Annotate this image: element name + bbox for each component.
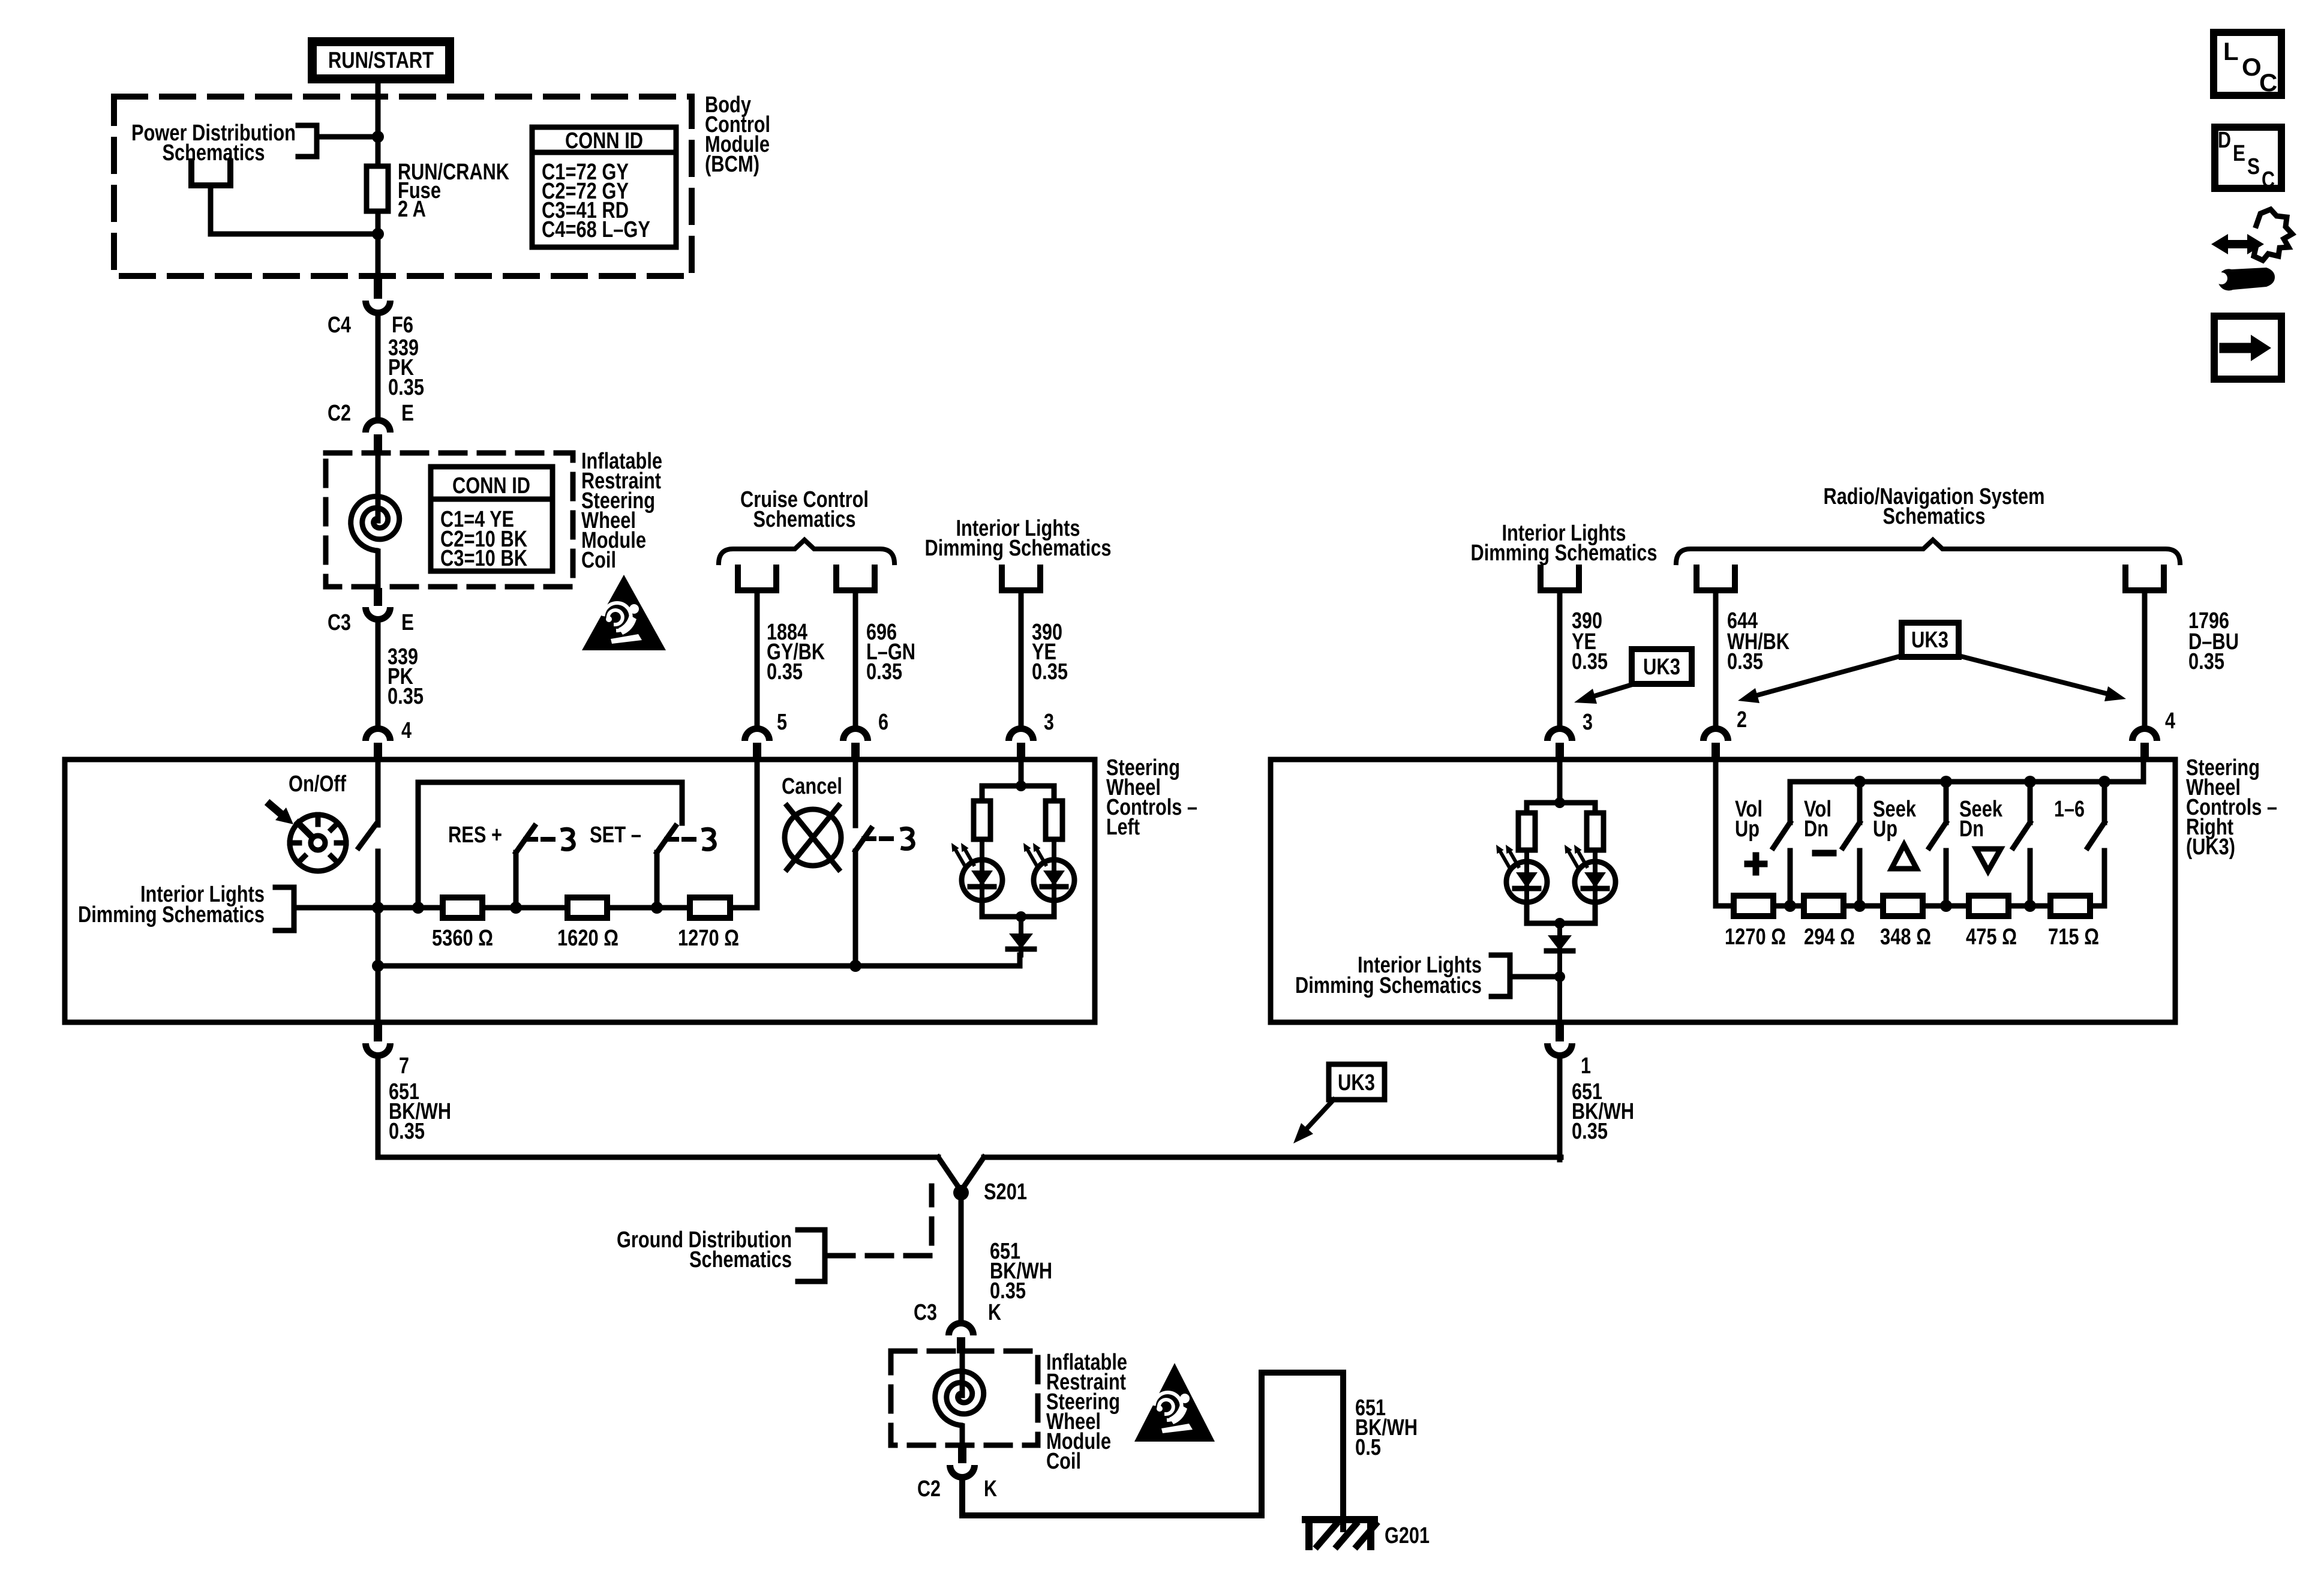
junction node bbox=[412, 902, 424, 914]
svg-text:5360 Ω: 5360 Ω bbox=[432, 926, 493, 951]
wire RES/SET top rail bbox=[418, 782, 682, 908]
icon LOC box bbox=[2214, 32, 2281, 97]
off-page staple pin 5 bbox=[738, 568, 776, 590]
svg-text:Dimming Schematics: Dimming Schematics bbox=[1295, 973, 1482, 998]
svg-text:Schematics: Schematics bbox=[753, 507, 856, 532]
wire S201 to C3 K bbox=[959, 1200, 964, 1320]
switch Seek Up stub and blade bbox=[1929, 782, 1946, 906]
svg-text:G201: G201 bbox=[1385, 1523, 1430, 1548]
svg-text:1270 Ω: 1270 Ω bbox=[1725, 924, 1786, 950]
icon DESC box bbox=[2215, 127, 2281, 193]
svg-text:6: 6 bbox=[878, 710, 888, 735]
junction node bbox=[510, 902, 522, 914]
connector C2 pin E of coil bbox=[362, 417, 394, 454]
icon forward arrow box bbox=[2214, 316, 2281, 379]
off-page staple pin 3 (right) bbox=[1541, 568, 1579, 590]
module box Steering Wheel Controls - Right bbox=[1271, 760, 2175, 1022]
label Interior Lights Dimming Schematics (right top) bbox=[1471, 521, 1658, 566]
off-page staple pin 3 bbox=[1002, 568, 1040, 590]
connector right pin 3 bbox=[1544, 725, 1575, 761]
brace over cruise control staples bbox=[719, 540, 894, 563]
svg-text:0.35: 0.35 bbox=[389, 1119, 425, 1144]
LED cluster feed wire (left box pin 3) bbox=[1019, 760, 1024, 786]
svg-text:475 Ω: 475 Ω bbox=[1966, 924, 2017, 950]
connector pin 6 bbox=[840, 725, 871, 761]
off-page staple pin 6 bbox=[836, 568, 875, 590]
resistor 1620 ohm bbox=[568, 897, 607, 918]
wire C4 to C2, circuit 339 PK bbox=[376, 314, 381, 417]
junction node bbox=[372, 228, 384, 240]
label 390 YE 0.35 bbox=[1032, 620, 1068, 685]
svg-text:S: S bbox=[2247, 154, 2260, 179]
coil spiral symbol bbox=[351, 497, 400, 551]
svg-text:Up: Up bbox=[1873, 816, 1897, 842]
wire bracket to main bbox=[317, 134, 378, 140]
wire LED bottom bar (right) bbox=[1527, 902, 1595, 923]
svg-text:On/Off: On/Off bbox=[289, 772, 346, 797]
svg-text:E: E bbox=[401, 401, 414, 426]
switch On/Off: upper wire bbox=[376, 760, 381, 825]
svg-text:C2: C2 bbox=[328, 401, 351, 426]
svg-text:Left: Left bbox=[1106, 815, 1140, 840]
svg-text:UK3: UK3 bbox=[1338, 1070, 1375, 1095]
wire switch top rail bbox=[1790, 760, 2143, 822]
arrow into gauge bbox=[270, 804, 293, 824]
CONN ID table (coil) bbox=[431, 467, 553, 571]
svg-text:0.35: 0.35 bbox=[1572, 1119, 1608, 1144]
wire into coil center bbox=[376, 454, 381, 521]
connector right pin 4 bbox=[2129, 725, 2160, 761]
svg-text:D: D bbox=[2218, 128, 2231, 153]
diode (left box) bbox=[1008, 917, 1034, 955]
LED emission arrows bbox=[1565, 845, 1587, 866]
switch Cancel detent link bbox=[881, 828, 913, 849]
coil spiral symbol (bottom) bbox=[935, 1371, 984, 1426]
svg-text:Coil: Coil bbox=[581, 548, 616, 573]
switch 1-6 stub and blade bbox=[2088, 782, 2104, 906]
svg-text:0.35: 0.35 bbox=[1032, 659, 1068, 685]
svg-text:0.5: 0.5 bbox=[1355, 1435, 1381, 1460]
wire LED bottom bar bbox=[982, 900, 1054, 917]
label 390 YE 0.35 (right) bbox=[1572, 608, 1608, 674]
svg-text:1–6: 1–6 bbox=[2054, 797, 2085, 822]
wire staple to right pin 3 bbox=[1557, 590, 1563, 725]
fuse RUN/CRANK 2A bbox=[367, 166, 388, 211]
LED indicator left (right box) bbox=[1506, 861, 1547, 902]
switch SET- blade bbox=[657, 826, 677, 852]
junction node bbox=[1016, 781, 1026, 791]
connector pin 7 (left box bottom) bbox=[362, 1023, 394, 1059]
label Interior Lights Dimming Schematics (left top) bbox=[925, 516, 1112, 561]
svg-text:4: 4 bbox=[401, 718, 412, 743]
wire coil exit down bbox=[376, 551, 381, 588]
svg-text:RUN/START: RUN/START bbox=[328, 48, 434, 73]
coil module dashed box (Inflatable Restraint Steering Wheel Module Coil) bbox=[326, 453, 573, 587]
resistor 5360 ohm bbox=[443, 897, 482, 918]
resistor LED right bbox=[1046, 801, 1062, 839]
svg-text:1: 1 bbox=[1581, 1053, 1591, 1079]
switch Vol Dn stub and blade bbox=[1843, 782, 1860, 906]
wire into bottom coil center bbox=[960, 1353, 965, 1395]
wire staple to pin 2 bbox=[1713, 590, 1719, 725]
svg-text:1270 Ω: 1270 Ω bbox=[678, 926, 739, 951]
off-page staple pin 2 bbox=[1697, 568, 1735, 590]
svg-text:C: C bbox=[2259, 68, 2277, 97]
svg-text:UK3: UK3 bbox=[1643, 655, 1680, 680]
wire LED branch top bar bbox=[982, 786, 1054, 801]
svg-text:1620 Ω: 1620 Ω bbox=[557, 926, 618, 951]
svg-text:Schematics: Schematics bbox=[1883, 504, 1986, 529]
label 339 PK 0.35 bbox=[388, 644, 424, 709]
splice S201 V-drop right bbox=[962, 1157, 984, 1189]
wire resistor to LED right bbox=[1052, 839, 1056, 860]
label Inflatable Restraint Steering Wheel Module Coil bbox=[581, 449, 662, 573]
CONN ID table (BCM) bbox=[532, 127, 676, 247]
connector C4 pin F6 bbox=[362, 277, 394, 316]
switch On/Off blade bbox=[359, 825, 376, 848]
label Interior Lights Dimming Schematics (inside right box) bbox=[1295, 953, 1482, 998]
arrow UK3 to pin 3 wire bbox=[1574, 684, 1634, 704]
wire coil exit down bbox=[960, 1426, 965, 1446]
label 339 PK 0.35 bbox=[388, 335, 424, 400]
coil module dashed box (bottom) bbox=[891, 1351, 1038, 1445]
switch SET- stub bbox=[654, 852, 660, 908]
svg-text:(BCM): (BCM) bbox=[705, 152, 759, 177]
connector C2 pin K of coil bbox=[947, 1446, 978, 1481]
label Steering Wheel Controls - Right (UK3) bbox=[2186, 755, 2277, 860]
LED indicator right (right box) bbox=[1575, 861, 1616, 902]
off-page staple pin 4 (right) bbox=[2125, 568, 2164, 590]
LED emission arrows left bbox=[951, 843, 974, 864]
svg-text:715 Ω: 715 Ω bbox=[2048, 924, 2099, 950]
reference bracket (Power Distribution) bbox=[298, 125, 317, 157]
arrow UK3 to wire bbox=[1293, 1100, 1334, 1143]
label 644 WH/BK 0.35 bbox=[1727, 608, 1789, 674]
junction node bbox=[651, 902, 663, 914]
icon connector repair (arrow, harness outline, wrench) bbox=[2211, 209, 2292, 290]
label UK3 (bottom callout box) bbox=[1329, 1064, 1385, 1100]
wire pin 7 down to S201 run bbox=[378, 1057, 938, 1157]
resistor LED left (right box) bbox=[1518, 813, 1535, 850]
wire C3 to left box pin 4 bbox=[376, 622, 381, 725]
svg-text:Cancel: Cancel bbox=[782, 774, 842, 799]
wire below On/Off switch bbox=[376, 851, 381, 1022]
LED emission arrows right bbox=[1023, 843, 1046, 864]
wire pin 1 down bbox=[1557, 1057, 1563, 1160]
svg-text:348 Ω: 348 Ω bbox=[1880, 924, 1931, 950]
switch RES+ stub bbox=[514, 852, 519, 908]
svg-text:CONN ID: CONN ID bbox=[452, 473, 530, 499]
svg-text:0.35: 0.35 bbox=[388, 684, 424, 709]
switch SET- detent link bbox=[684, 829, 714, 849]
junction node bbox=[372, 960, 384, 972]
svg-text:E: E bbox=[401, 610, 414, 635]
connector C3 pin K of coil bbox=[945, 1320, 977, 1353]
resistor LED left bbox=[974, 801, 990, 839]
svg-text:SET –: SET – bbox=[590, 822, 641, 848]
wire staple to pin 4 bbox=[2142, 590, 2148, 725]
wire staple down and right to main bbox=[211, 185, 378, 234]
svg-text:C3: C3 bbox=[914, 1300, 937, 1325]
svg-text:Coil: Coil bbox=[1046, 1449, 1081, 1474]
label Power Distribution Schematics bbox=[131, 121, 296, 166]
svg-text:0.35: 0.35 bbox=[767, 659, 803, 685]
switch Cancel: upper wire bbox=[853, 760, 858, 825]
wire resistor chain bottom line bbox=[378, 905, 730, 911]
svg-text:C3: C3 bbox=[328, 610, 351, 635]
svg-text:C: C bbox=[2262, 167, 2275, 193]
wire resistor to LED left bbox=[980, 839, 984, 860]
connector pin 3 (left box) bbox=[1005, 725, 1037, 761]
svg-text:3: 3 bbox=[1044, 710, 1054, 735]
label Inflatable Restraint Steering Wheel Module Coil (bottom) bbox=[1046, 1350, 1127, 1474]
svg-text:(UK3): (UK3) bbox=[2186, 834, 2235, 860]
reference bracket (interior lights right) bbox=[1491, 955, 1510, 996]
label 651 BK/WH 0.35 (left) bbox=[389, 1079, 451, 1144]
svg-text:C4=68 L–GY: C4=68 L–GY bbox=[542, 217, 650, 242]
switch Vol Up stub and blade bbox=[1773, 782, 1790, 906]
svg-text:C2: C2 bbox=[917, 1476, 941, 1502]
reference bracket (ground distribution) bbox=[798, 1230, 825, 1281]
connector pin 5 bbox=[741, 725, 773, 761]
wire bracket to main bbox=[294, 905, 378, 911]
LED indicator left bbox=[962, 860, 1002, 900]
label 1796 D-BU 0.35 bbox=[2188, 608, 2239, 674]
svg-text:2: 2 bbox=[1737, 707, 1747, 733]
module BCM dashed box bbox=[114, 97, 692, 276]
label UK3 (right pin 3 callout) bbox=[1632, 649, 1692, 684]
label 651 BK/WH 0.35 (S201 drop) bbox=[990, 1239, 1052, 1304]
arrow UK3 to pin 2 wire bbox=[1738, 656, 1902, 703]
junction node bbox=[1554, 918, 1565, 929]
resistor LED right (right box) bbox=[1587, 813, 1604, 850]
junction nodes top rail bbox=[1854, 776, 1866, 788]
brace over radio/navigation staples bbox=[1676, 540, 2180, 563]
junction node bbox=[1554, 971, 1565, 982]
svg-text:0.35: 0.35 bbox=[1572, 649, 1608, 674]
power feed RUN/START box bbox=[308, 37, 454, 83]
airbag warning triangle (bottom) bbox=[1134, 1363, 1215, 1442]
label Seek Dn triangle bbox=[1959, 797, 2003, 871]
junction node bbox=[849, 960, 861, 972]
junction node bbox=[1554, 797, 1565, 808]
svg-text:K: K bbox=[988, 1300, 1001, 1325]
reference bracket (interior lights left) bbox=[275, 887, 294, 930]
label Body Control Module (BCM) bbox=[705, 92, 770, 177]
junction node bbox=[1016, 911, 1026, 922]
wire bracket tee bbox=[1510, 974, 1560, 980]
resistors 1270 294 348 475 715 bbox=[1734, 896, 1773, 916]
wire C2 K to ground G201 bbox=[962, 1373, 1343, 1529]
wire lamp return line bbox=[378, 955, 1020, 966]
wire resistor rail (right box) bbox=[1716, 903, 2104, 909]
svg-text:Up: Up bbox=[1735, 816, 1759, 842]
svg-text:5: 5 bbox=[777, 710, 787, 735]
diode (right box) bbox=[1547, 923, 1573, 1022]
LED cluster feed wire (right box pin 3) bbox=[1557, 760, 1563, 803]
wire pin 2 down to resistor rail bbox=[1713, 760, 1719, 906]
svg-text:Dn: Dn bbox=[1804, 816, 1828, 842]
wire BCM internal vertical bbox=[376, 100, 381, 277]
svg-text:K: K bbox=[984, 1476, 997, 1502]
svg-text:L: L bbox=[2223, 37, 2239, 65]
svg-text:UK3: UK3 bbox=[1911, 628, 1948, 653]
switch Seek Dn stub and blade bbox=[2013, 782, 2030, 906]
svg-text:0.35: 0.35 bbox=[1727, 649, 1763, 674]
switch RES+ blade bbox=[516, 826, 536, 852]
svg-text:O: O bbox=[2242, 53, 2262, 81]
ground symbol G201 bbox=[1305, 1520, 1376, 1547]
label UK3 (radio callout) bbox=[1902, 623, 1959, 657]
svg-text:294 Ω: 294 Ω bbox=[1804, 924, 1855, 950]
splice S201 V-drop left bbox=[938, 1157, 960, 1189]
svg-text:Dn: Dn bbox=[1959, 816, 1984, 842]
cancel lamp circle-X bbox=[785, 806, 841, 869]
svg-text:Dimming Schematics: Dimming Schematics bbox=[78, 902, 265, 927]
off-page staple under Power Distribution bbox=[191, 161, 230, 185]
junction nodes bottom rail bbox=[1784, 900, 1796, 912]
switch Cancel blade bbox=[855, 828, 874, 851]
dashed reference wire to S201 bbox=[829, 1186, 932, 1256]
wire chain right end riser to pin 5 bbox=[730, 760, 757, 908]
svg-text:C4: C4 bbox=[328, 313, 351, 338]
label 651 BK/WH 0.35 (right) bbox=[1572, 1079, 1634, 1144]
svg-text:C3=10 BK: C3=10 BK bbox=[440, 546, 527, 571]
svg-text:3: 3 bbox=[1583, 710, 1593, 735]
svg-text:2 A: 2 A bbox=[398, 197, 426, 222]
label Cruise Control Schematics bbox=[740, 487, 869, 532]
connector pin 2 bbox=[1700, 725, 1731, 761]
wire resistor to LED right bbox=[1593, 850, 1598, 861]
svg-text:7: 7 bbox=[399, 1053, 409, 1079]
LED emission arrows bbox=[1496, 845, 1518, 866]
svg-text:0.35: 0.35 bbox=[388, 375, 424, 400]
connector C3 pin E of coil (below box) bbox=[362, 588, 394, 623]
svg-text:0.35: 0.35 bbox=[2188, 649, 2224, 674]
label RUN/CRANK Fuse 2 A bbox=[398, 160, 509, 222]
svg-text:RES +: RES + bbox=[448, 822, 502, 848]
splice node S201 bbox=[953, 1185, 969, 1200]
svg-text:E: E bbox=[2233, 141, 2245, 166]
label Vol Up + bbox=[1735, 797, 1764, 872]
connector pin 1 (right box bottom) bbox=[1544, 1023, 1575, 1059]
module box Steering Wheel Controls - Left bbox=[65, 760, 1095, 1022]
wire staple to pin 3 bbox=[1019, 590, 1024, 725]
label 651 BK/WH 0.5 bbox=[1355, 1395, 1418, 1460]
svg-text:0.35: 0.35 bbox=[866, 659, 902, 685]
label Steering Wheel Controls - Left bbox=[1106, 755, 1197, 840]
wire resistor to LED left bbox=[1524, 850, 1529, 861]
svg-text:Dimming Schematics: Dimming Schematics bbox=[1471, 541, 1658, 566]
wire LED branch top bar (right) bbox=[1527, 803, 1595, 816]
wire right box pin 1 run to S201 bbox=[984, 1155, 1561, 1160]
label Radio/Navigation System Schematics bbox=[1824, 484, 2045, 529]
LED indicator right bbox=[1034, 860, 1074, 900]
label Vol Dn - bbox=[1804, 797, 1833, 853]
wire staple to pin 5 bbox=[755, 590, 760, 725]
gauge icon (speed control) bbox=[290, 815, 346, 871]
label Interior Lights Dimming Schematics (inside left box) bbox=[78, 882, 265, 927]
switch RES+ detent link bbox=[543, 829, 574, 849]
arrow UK3 to pin 4 wire bbox=[1959, 656, 2126, 701]
junction node bbox=[372, 902, 384, 914]
svg-text:S201: S201 bbox=[984, 1179, 1027, 1205]
svg-text:Schematics: Schematics bbox=[689, 1247, 792, 1272]
wire RUN/START to BCM bbox=[376, 83, 381, 100]
svg-text:Schematics: Schematics bbox=[163, 140, 265, 166]
wire below Cancel switch bbox=[853, 851, 858, 966]
svg-text:Dimming Schematics: Dimming Schematics bbox=[925, 536, 1112, 561]
svg-text:CONN ID: CONN ID bbox=[565, 128, 643, 154]
resistor 1270 ohm bbox=[690, 897, 730, 918]
label 1884 GY/BK 0.35 bbox=[767, 620, 825, 685]
svg-text:4: 4 bbox=[2165, 709, 2175, 734]
label Seek Up triangle bbox=[1873, 797, 1917, 869]
connector pin 4 (left box top) bbox=[362, 725, 394, 761]
airbag warning triangle bbox=[582, 575, 666, 650]
label Ground Distribution Schematics bbox=[617, 1227, 792, 1272]
svg-text:F6: F6 bbox=[392, 313, 413, 338]
wire rail right riser bbox=[2102, 851, 2107, 906]
wire staple to pin 6 bbox=[853, 590, 858, 725]
label 696 L-GN 0.35 bbox=[866, 620, 915, 685]
junction node bbox=[372, 131, 384, 143]
